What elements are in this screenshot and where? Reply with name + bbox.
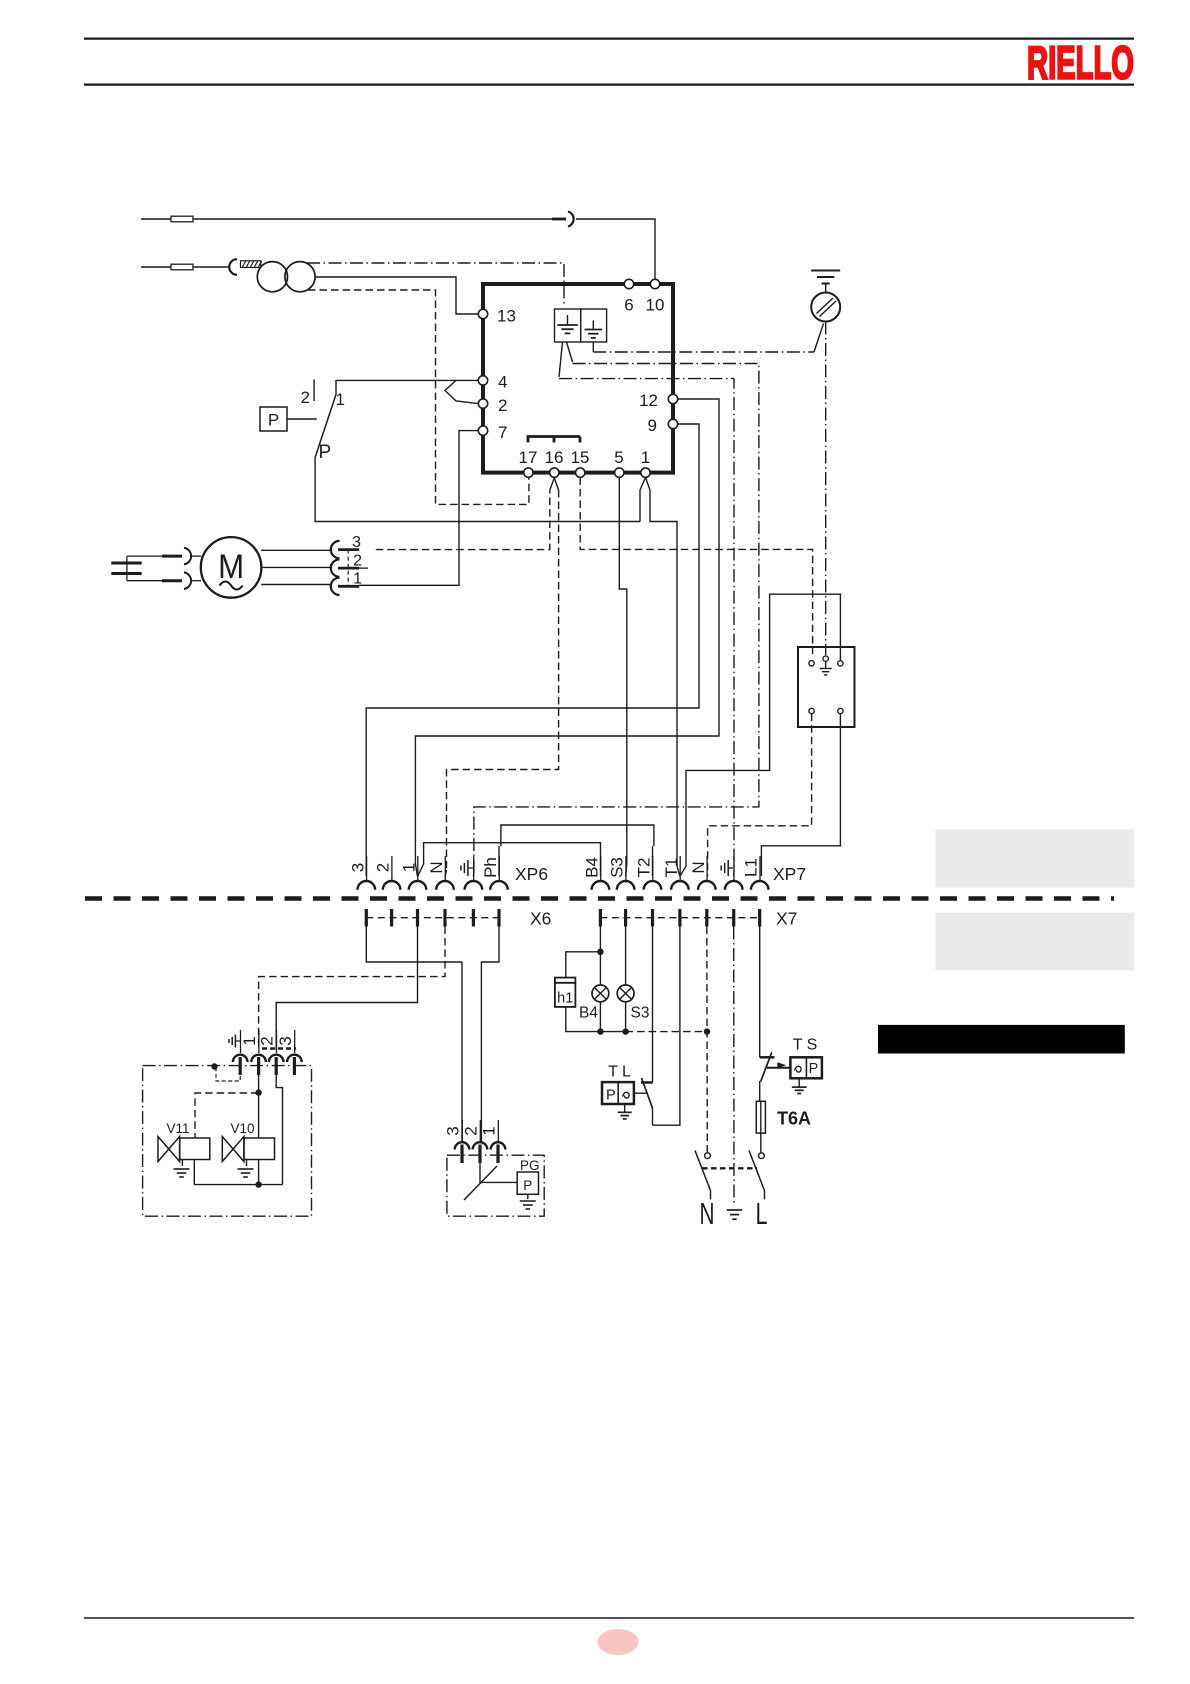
- valve connector pins: [233, 1055, 302, 1075]
- switch mechanical link: [702, 1167, 757, 1169]
- X6 socket row: [366, 909, 499, 927]
- wire X7-T2 to TL contact: [652, 927, 654, 1083]
- svg-text:T S: T S: [793, 1036, 818, 1053]
- svg-text:N: N: [427, 861, 446, 873]
- svg-text:10: 10: [646, 296, 665, 315]
- mains earth: [727, 1209, 743, 1211]
- svg-text:2: 2: [353, 553, 362, 570]
- svg-text:1: 1: [400, 863, 419, 872]
- PG P box link: [480, 1163, 517, 1182]
- TS blade: [761, 1052, 772, 1081]
- valve pin labels: [229, 1030, 295, 1053]
- motor winding arcs: [331, 541, 340, 595]
- burner/boiler boundary dashed separator: [85, 896, 1114, 901]
- valve coil return wire: [194, 1075, 282, 1188]
- svg-text:2: 2: [498, 396, 507, 415]
- dashed wire terminal 15 to valve plug pin TL: [580, 478, 812, 655]
- wire P to terminals 4 and 2: [336, 380, 478, 403]
- svg-text:S3: S3: [608, 857, 627, 878]
- hour counter h1: [555, 952, 601, 1032]
- motor M: [201, 537, 262, 598]
- svg-text:1: 1: [641, 448, 650, 467]
- page number badge: [598, 1629, 639, 1655]
- P switch lower wire to terminal 1 net: [315, 458, 640, 522]
- PG switch blade: [464, 1166, 497, 1200]
- control box terminal 1: [641, 468, 650, 477]
- inline fuse on line 1: [171, 216, 193, 222]
- TL limit thermostat box: [602, 1082, 634, 1104]
- dashed wire terminal 16 to XP6 N: [445, 478, 559, 877]
- wire XP6 Ph to XP7 T2: [498, 846, 500, 876]
- TS contact tick: [760, 1056, 775, 1059]
- svg-text:6: 6: [624, 296, 633, 315]
- P switch contact 2 stub: [313, 380, 315, 402]
- chain left square fork to XP6 earth: [473, 342, 759, 877]
- chain screw terminal to valve plug middle pin: [825, 322, 827, 656]
- hatched block (spark gap): [241, 261, 262, 268]
- svg-text:1: 1: [336, 390, 345, 409]
- ignition transformer circles: [257, 262, 287, 292]
- PG connector pins: [455, 1142, 506, 1163]
- TL contact tick: [641, 1081, 653, 1084]
- P switch contact 1 stub: [335, 380, 337, 394]
- svg-text:S3: S3: [631, 1005, 650, 1022]
- connector symbol on line 1: [552, 218, 566, 221]
- chain left square fork to XP7 earth: [559, 342, 734, 877]
- dashed wire X6-N to valve pin 1: [259, 927, 445, 1051]
- svg-text:Ph: Ph: [481, 857, 500, 878]
- svg-text:XP6: XP6: [515, 864, 548, 884]
- transformer wire to terminal 13: [315, 277, 478, 314]
- transformer dashed wire to terminal 17: [308, 290, 529, 504]
- wire connector to terminal 10: [576, 219, 655, 280]
- inline fuse on line 2: [171, 264, 193, 270]
- motor wires to winding: [261, 550, 331, 584]
- TS earth: [792, 1078, 807, 1093]
- wire X7-L1 down: [759, 927, 761, 1058]
- V11 earth: [174, 1160, 190, 1178]
- redacted gray box 1: [935, 829, 1134, 887]
- fuse T6A: [756, 1081, 765, 1153]
- control box terminal 15: [576, 468, 585, 477]
- control box outline: [483, 284, 673, 473]
- wire terminal 5 to XP7 S3: [619, 478, 627, 877]
- control box terminal 13: [478, 309, 487, 318]
- TL earth: [618, 1104, 632, 1119]
- pressure switch P box: [260, 407, 287, 431]
- header rule bottom: [84, 83, 1134, 85]
- svg-text:2: 2: [374, 863, 393, 872]
- svg-text:3: 3: [444, 1126, 463, 1135]
- control box terminal 10: [650, 279, 659, 288]
- svg-text:9: 9: [648, 416, 657, 435]
- svg-text:P: P: [268, 411, 279, 430]
- svg-text:PG: PG: [520, 1158, 540, 1173]
- valve pin1 to coils node: [255, 1075, 261, 1138]
- svg-text:T L: T L: [608, 1063, 631, 1080]
- main switch pole N: [695, 1151, 711, 1200]
- svg-text:X7: X7: [776, 909, 797, 929]
- svg-text:L: L: [756, 1196, 768, 1231]
- connector arc on line 2: [229, 259, 237, 275]
- capacitor / plug symbol: [111, 548, 201, 589]
- control box terminal 16: [550, 468, 559, 477]
- wire X7-T1 to TL blade: [653, 927, 680, 1126]
- wire XP6 pin1 branch to XP7 B4: [418, 843, 601, 877]
- wire terminal 9 to XP6 pin 3: [366, 424, 699, 876]
- X7 earth chain down: [733, 927, 735, 1207]
- earth screw terminal: [811, 271, 840, 322]
- svg-text:RIELLO: RIELLO: [1027, 37, 1134, 89]
- terminal bracket 17-16-15: [528, 437, 580, 443]
- wire X7-B4 to lamps: [597, 927, 603, 986]
- valve assembly boundary: [143, 1066, 312, 1217]
- valve connector dashed bar: [262, 1047, 296, 1050]
- svg-text:5: 5: [614, 448, 623, 467]
- svg-text:T2: T2: [635, 858, 654, 878]
- winding tap chain line: [347, 550, 349, 587]
- main switch pole L: [749, 1151, 765, 1200]
- wire X6-3 to PG pin 3: [366, 927, 462, 1143]
- svg-text:P: P: [523, 1178, 532, 1193]
- TS safety thermostat box: [790, 1057, 822, 1078]
- svg-text:T6A: T6A: [777, 1109, 811, 1129]
- header rule top: [84, 37, 1134, 39]
- svg-text:h1: h1: [557, 991, 573, 1007]
- svg-text:1: 1: [480, 1126, 499, 1135]
- XP6 plug pins: [358, 881, 508, 890]
- TL blade: [642, 1078, 653, 1108]
- control box terminal 6: [624, 279, 633, 288]
- svg-text:N: N: [700, 1196, 715, 1231]
- internal earth square right: [581, 309, 607, 342]
- svg-text:12: 12: [639, 391, 658, 410]
- svg-text:P: P: [319, 442, 332, 463]
- wire terminal 1 to P switch and XP7 T1: [640, 478, 680, 877]
- X7 socket row: [600, 909, 759, 927]
- redacted gray box 2: [935, 913, 1134, 971]
- supply line 1 wire: [141, 218, 552, 220]
- svg-text:V10: V10: [231, 1121, 255, 1136]
- wire valve plug BR to XP7 L1: [761, 714, 840, 876]
- svg-text:2: 2: [258, 1036, 277, 1045]
- PG P box: [517, 1172, 538, 1194]
- svg-text:T1: T1: [662, 858, 681, 878]
- wire terminal 12 to XP6 pin 1: [415, 399, 719, 877]
- svg-text:P: P: [809, 1061, 819, 1077]
- svg-text:17: 17: [519, 448, 538, 467]
- control box terminal 17: [524, 468, 533, 477]
- control box terminal 4: [478, 376, 487, 385]
- signal lamp B4: [579, 985, 609, 1035]
- PG boundary: [447, 1155, 544, 1216]
- chain earth: right square to screw terminal: [593, 324, 823, 353]
- svg-text:XP7: XP7: [773, 864, 806, 884]
- PG pin labels: [444, 1120, 499, 1143]
- TS arrow: [777, 1062, 786, 1068]
- lamp return dashed to neutral: [600, 1028, 710, 1034]
- redacted black box: [878, 1025, 1125, 1054]
- control box terminal 2: [478, 399, 487, 408]
- svg-text:15: 15: [571, 448, 590, 467]
- wire terminal 7 to winding tap 1: [359, 431, 478, 586]
- terminal labels: [497, 296, 664, 468]
- control box terminal 12: [668, 394, 677, 403]
- dashed branch to V11 coil: [195, 1093, 259, 1138]
- control box terminal 9: [668, 419, 677, 428]
- PG earth: [520, 1194, 536, 1209]
- X7-N dashed down: [706, 927, 709, 1153]
- svg-text:3: 3: [276, 1036, 295, 1045]
- svg-text:13: 13: [497, 307, 516, 326]
- P switch blade: [315, 394, 336, 457]
- valve earth pin bond to shield: [211, 1063, 240, 1081]
- svg-text:N: N: [689, 861, 708, 873]
- signal lamp S3: [617, 927, 649, 1035]
- control box terminal 5: [615, 468, 624, 477]
- svg-text:1: 1: [240, 1036, 259, 1045]
- svg-text:X6: X6: [530, 909, 551, 929]
- footer rule: [84, 1617, 1134, 1619]
- wire X6-1 to valve pin 2: [276, 927, 417, 1051]
- RIELLO logo: [1027, 37, 1134, 89]
- dashed wire valve plug BL to XP7 N: [708, 714, 812, 876]
- wire valve plug TR to XP7 T1: [680, 594, 841, 876]
- svg-text:4: 4: [498, 373, 507, 392]
- svg-text:2: 2: [462, 1126, 481, 1135]
- XP6 pin labels: [348, 856, 500, 880]
- svg-text:7: 7: [498, 423, 507, 442]
- internal earth square left: [555, 309, 581, 342]
- transformer shield chain to earth block: [307, 263, 564, 306]
- svg-text:V11: V11: [167, 1121, 190, 1136]
- V10 earth: [238, 1160, 254, 1178]
- control box terminal 7: [478, 426, 487, 435]
- svg-text:16: 16: [545, 448, 564, 467]
- svg-text:M: M: [218, 548, 244, 586]
- valve V10: [222, 1121, 274, 1162]
- TL box link: [634, 1092, 647, 1094]
- supply line 2 wire: [141, 266, 229, 268]
- dashed wire winding tap 3 to terminal 16: [376, 478, 555, 550]
- winding tap bars: [338, 550, 368, 587]
- valve V11: [158, 1121, 210, 1162]
- svg-text:B4: B4: [579, 1005, 598, 1022]
- winding tap labels 3 2 1: [352, 534, 362, 588]
- svg-text:P: P: [606, 1088, 616, 1104]
- valve plug connector: [798, 647, 855, 727]
- XP7 pin labels: [582, 856, 760, 880]
- wire X6-Ph to PG pin 2: [481, 927, 499, 1143]
- P switch link wire: [287, 418, 317, 420]
- svg-text:B4: B4: [582, 857, 601, 878]
- svg-text:3: 3: [352, 534, 361, 551]
- svg-text:2: 2: [301, 388, 310, 407]
- XP7 plug pins: [592, 881, 769, 890]
- svg-text:3: 3: [348, 863, 367, 872]
- svg-text:L1: L1: [742, 858, 761, 877]
